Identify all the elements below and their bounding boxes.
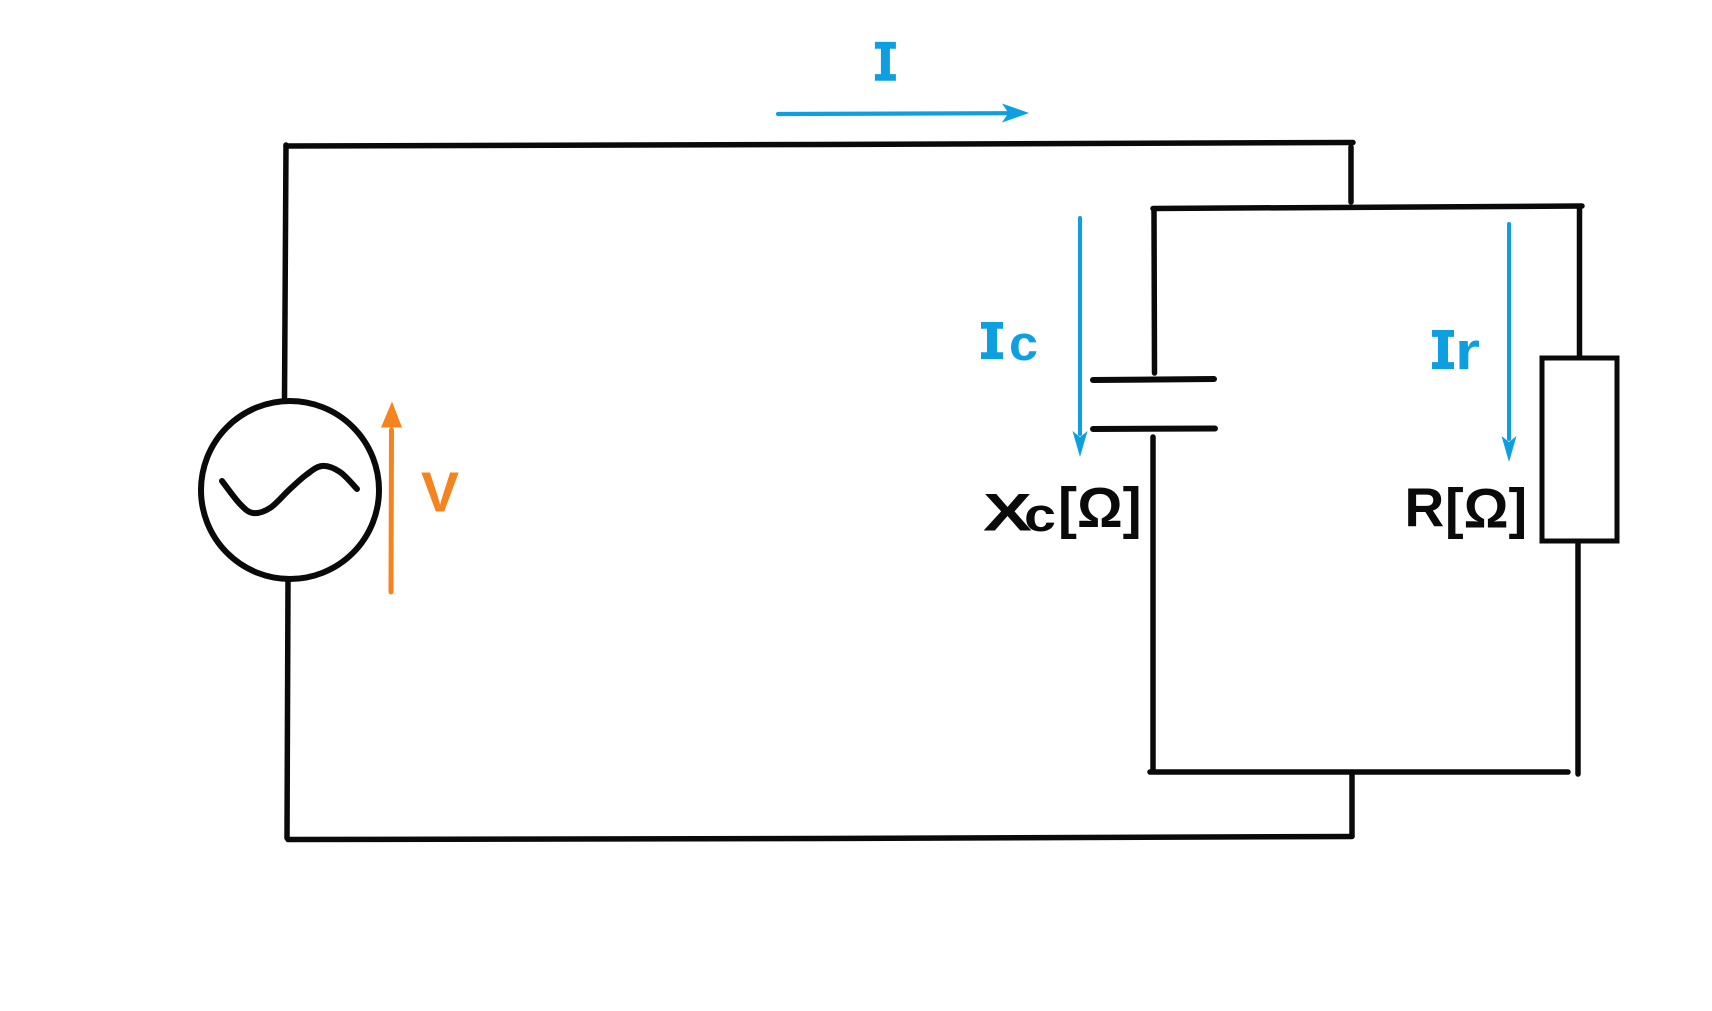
svg-text:[Ω]: [Ω]: [1445, 477, 1527, 540]
arrow: current Ic (cyan, down): [1073, 218, 1088, 457]
svg-text:c: c: [1024, 488, 1056, 541]
arrow: current I (cyan, top): [778, 104, 1029, 123]
wire: left vertical (top wire to source top): [285, 145, 287, 399]
label I (slab capital, cyan): [875, 42, 896, 81]
label Ir (cyan): [1432, 322, 1480, 381]
svg-text:R: R: [1405, 477, 1445, 539]
resistor R body: [1542, 358, 1617, 541]
wire: resistor upper lead: [1577, 208, 1583, 356]
wire: capacitor lower lead: [1150, 437, 1156, 771]
wire: source bottom to bottom wire: [287, 581, 288, 838]
svg-text:V: V: [421, 461, 459, 525]
svg-text:r: r: [1455, 322, 1480, 381]
label Xc[ohm] for capacitor: [983, 476, 1142, 543]
wire: bottom horizontal: [288, 837, 1352, 840]
capacitor C (Xc) plates: [1093, 379, 1215, 429]
wire: capacitor upper lead: [1151, 209, 1157, 373]
arrow: current Ir (cyan, down): [1502, 224, 1517, 462]
wire: resistor lower lead: [1575, 542, 1581, 774]
label Ic (cyan): [981, 317, 1038, 371]
svg-text:c: c: [1009, 317, 1038, 371]
svg-text:[Ω]: [Ω]: [1058, 476, 1142, 540]
label R[ohm] for resistor: [1405, 477, 1528, 540]
wire: parallel block bottom: [1150, 769, 1568, 775]
wire: parallel block top: [1153, 206, 1582, 209]
arrow: voltage V (orange, up): [381, 402, 402, 593]
wire: bottom stub up to parallel block: [1349, 772, 1355, 836]
AC source V1: sine wave: [222, 466, 357, 513]
wire: top stub from main top wire: [1348, 147, 1354, 202]
AC source V1: circle: [201, 401, 379, 579]
wire: top horizontal (source to parallel block): [286, 143, 1353, 147]
